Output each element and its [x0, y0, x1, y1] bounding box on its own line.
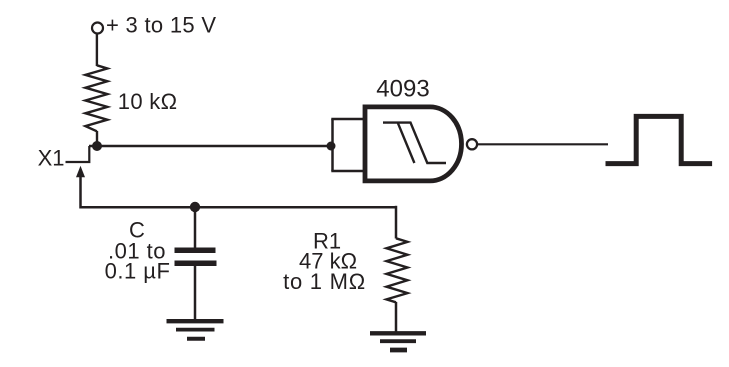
wire resistor to node X1 [96, 131, 98, 146]
resistor R1 [387, 238, 408, 302]
svg-text:0.1 µF: 0.1 µF [105, 258, 171, 283]
X1 contact step wire [66, 146, 90, 162]
gate input junction dot [327, 142, 336, 151]
svg-text:X1: X1 [38, 145, 65, 170]
node X1 junction dot [92, 141, 102, 151]
arrow touch contact [76, 166, 85, 178]
terminal +V supply [92, 23, 103, 34]
gate input stub top [331, 118, 365, 121]
inverter bubble [467, 139, 477, 149]
ground (capacitor) [167, 319, 224, 323]
output wire [478, 143, 608, 145]
junction dot bottom net [190, 202, 200, 212]
output pulse waveform [606, 116, 713, 163]
ground (R1) [370, 331, 426, 335]
NAND gate U1 (4093 Schmitt trigger) body [365, 107, 462, 181]
capacitor C plates [175, 247, 216, 253]
wire capacitor to ground [194, 266, 197, 319]
svg-text:+ 3 to 15 V: + 3 to 15 V [106, 13, 216, 38]
schmitt hysteresis symbol [383, 123, 446, 163]
gate input tie bar [331, 119, 334, 171]
svg-text:4093: 4093 [376, 76, 429, 103]
wire from terminal to resistor [96, 34, 98, 67]
svg-text:10 kΩ: 10 kΩ [118, 89, 178, 114]
wire R1 to ground [395, 302, 398, 332]
resistor 10 kOhm [85, 65, 107, 131]
wire to capacitor [194, 207, 197, 247]
wire node X1 to gate input [89, 145, 331, 148]
gate input stub bottom [331, 170, 365, 173]
wire to resistor R1 [395, 206, 398, 239]
svg-text:to 1 MΩ: to 1 MΩ [283, 269, 366, 294]
